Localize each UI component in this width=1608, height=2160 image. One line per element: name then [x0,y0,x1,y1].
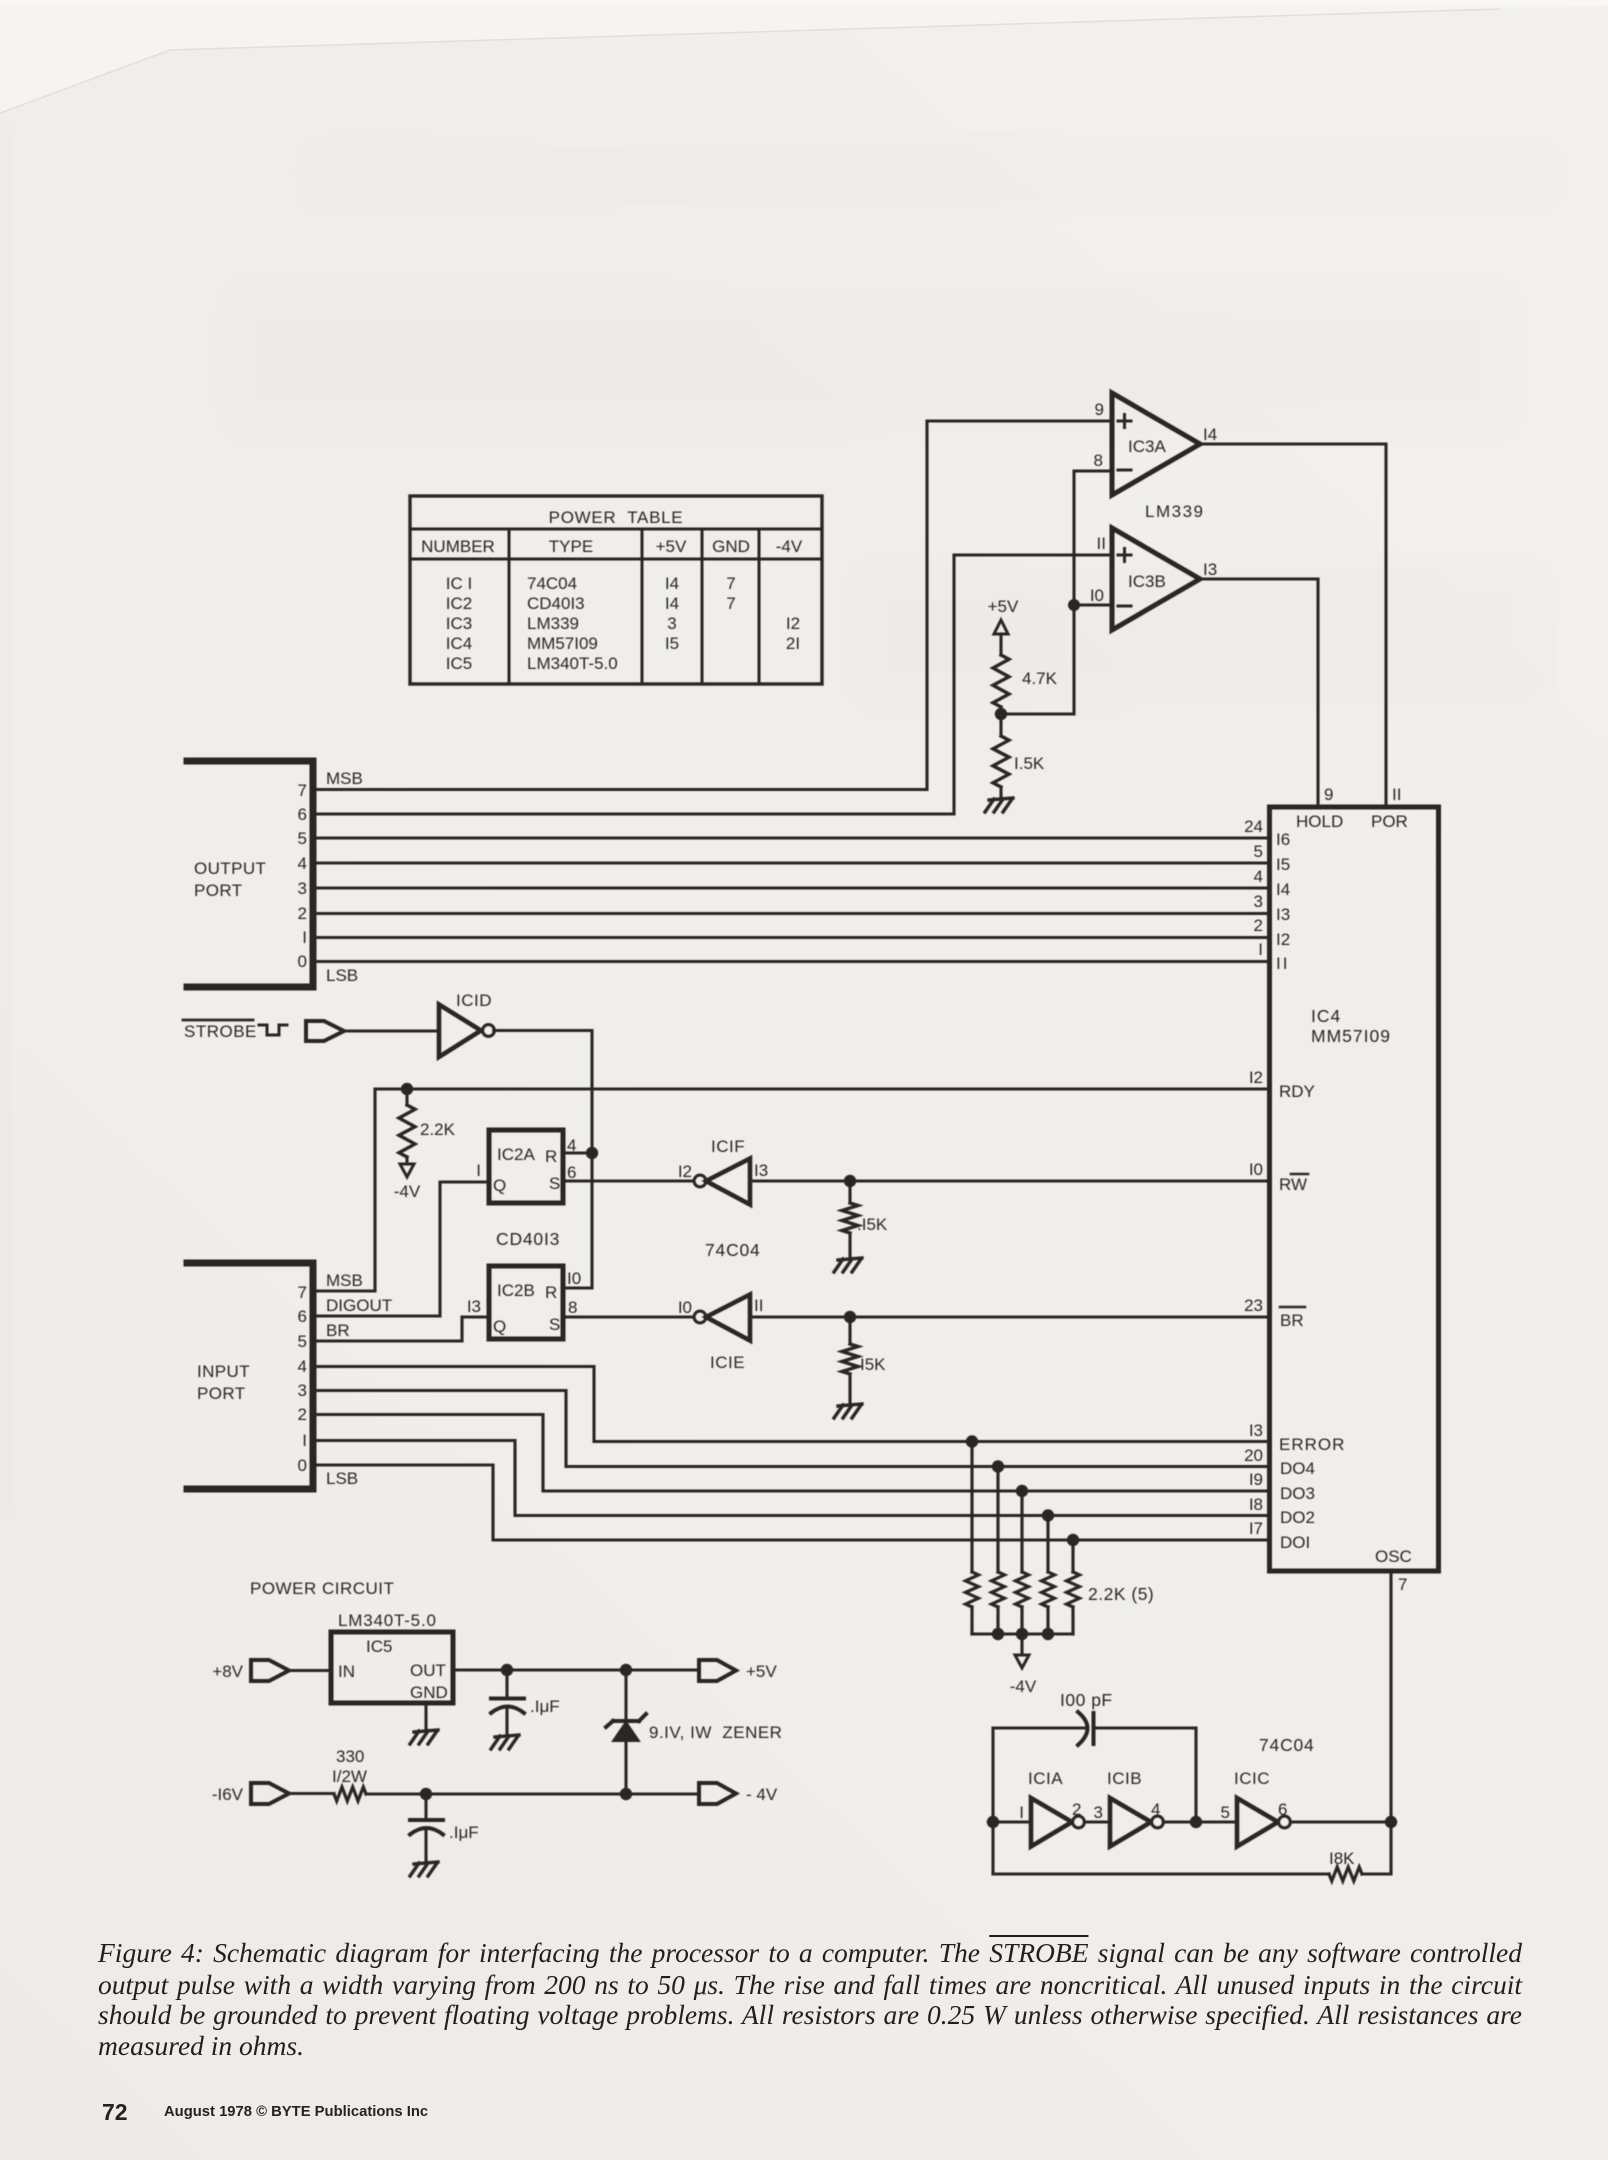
svg-text:5: 5 [1221,1803,1230,1822]
svg-text:7: 7 [726,574,735,593]
svg-text:.I5K: .I5K [857,1215,888,1234]
inverter IC1B [1094,1769,1164,1847]
svg-text:- 4V: - 4V [746,1785,778,1804]
svg-text:BR: BR [1280,1311,1304,1330]
power -4V below resistor bank [1010,1634,1037,1696]
svg-text:3: 3 [1254,892,1263,911]
svg-text:S: S [549,1315,560,1334]
svg-text:7: 7 [726,594,735,613]
resistor 330 1/2W [289,1747,367,1801]
wire: IC1D output to flip-flop reset chain [494,1031,593,1289]
wire: input port bit5 BR to IC2B Q pin 13 [313,1317,489,1341]
figure caption [98,1937,1522,1968]
resistor 2.2K bank #5 DO1 [1067,1540,1080,1634]
resistor 2.2K bank #3 DO3 [1016,1491,1029,1634]
svg-text:LM340T-5.0: LM340T-5.0 [338,1611,437,1630]
svg-text:5: 5 [1254,842,1263,861]
wire: input port bit0 to IC4 DO1 pin 17 [313,1465,1269,1540]
svg-text:2: 2 [1072,1800,1081,1819]
svg-text:5: 5 [298,1332,307,1351]
svg-text:I: I [1019,1803,1024,1822]
svg-text:DO3: DO3 [1280,1484,1315,1503]
junction: +5V rail cap tap [501,1664,513,1676]
svg-text:IC2: IC2 [446,594,472,613]
junction: RW / 15K tap [844,1175,856,1187]
svg-text:4: 4 [1151,1800,1160,1819]
svg-text:I2: I2 [786,614,800,633]
svg-text:24: 24 [1244,817,1263,836]
wire: IC3A minus pin 8 / IC3B minus pin 10 to divider node [1001,471,1112,714]
svg-text:9: 9 [1324,785,1333,804]
svg-text:4: 4 [298,1357,307,1376]
svg-text:LM339: LM339 [527,614,579,633]
junction: +5V rail zener tap [620,1664,632,1676]
svg-text:ICIE: ICIE [710,1353,745,1372]
svg-text:II: II [1276,954,1289,973]
svg-text:9.IV, IW ZENER: 9.IV, IW ZENER [649,1723,782,1742]
svg-text:.IμF: .IμF [530,1697,560,1716]
svg-text:LM340T-5.0: LM340T-5.0 [527,654,618,673]
svg-text:II: II [1392,785,1401,804]
flip-flop IC2A (CD4013) [476,1130,576,1203]
resistor 4.7K [993,655,1058,714]
svg-text:2.2K: 2.2K [420,1120,456,1139]
wire: output port bit5 to IC4 I6 [313,836,1269,839]
resistor 1.5K [993,714,1045,798]
svg-text:S: S [549,1174,560,1193]
svg-text:IC I: IC I [446,574,472,593]
svg-text:II: II [754,1296,763,1315]
wire: output port bit1 to IC4 I2 [313,936,1269,939]
svg-text:5: 5 [298,829,307,848]
input port [187,1263,392,1489]
svg-text:RDY: RDY [1279,1082,1315,1101]
connector -16V [212,1783,289,1804]
wire: IC1C output to OSC node [1290,1820,1391,1823]
svg-text:II: II [1097,534,1106,553]
wire: RDY net IC4 pin 12 to input port bit7 [313,1089,1269,1291]
svg-text:TYPE: TYPE [549,537,593,556]
svg-text:I5K: I5K [860,1355,886,1374]
junction: BR / 15K tap [844,1311,856,1323]
svg-text:-4V: -4V [776,537,803,556]
svg-text:PORT: PORT [194,881,243,900]
wire: 18K to left node [993,1872,1329,1875]
wire: input port bit2 to IC4 DO3 pin 19 [313,1415,1269,1492]
voltage regulator IC5 LM340T-5.0 [331,1632,453,1703]
svg-text:I0: I0 [567,1269,581,1288]
wire: feedback left vertical [991,1728,994,1874]
ground IC5 GND [410,1730,438,1744]
capacitor .1uF on -4V rail [410,1794,479,1862]
svg-text:I2: I2 [1249,1068,1263,1087]
svg-text:DO2: DO2 [1280,1508,1315,1527]
wire: input port bit1 to IC4 DO2 pin 18 [313,1441,1269,1516]
ground below 15K [834,1404,862,1418]
junction: DO3 pull-down tap [1016,1485,1028,1497]
junction: oscillator left node [987,1816,999,1828]
svg-text:74C04: 74C04 [1259,1735,1315,1755]
svg-text:MSB: MSB [326,769,363,788]
svg-text:330: 330 [336,1747,364,1766]
svg-text:LSB: LSB [326,966,358,985]
inverter IC1A [1019,1769,1084,1847]
svg-text:MM57I09: MM57I09 [1311,1026,1391,1046]
svg-text:R: R [545,1147,557,1166]
power -4V below 2.2K [394,1164,421,1201]
svg-text:+5V: +5V [988,597,1019,616]
svg-text:6: 6 [298,1307,307,1326]
svg-text:INPUT: INPUT [197,1362,250,1381]
svg-text:2: 2 [1254,916,1263,935]
svg-text:CD40I3: CD40I3 [527,594,585,613]
svg-text:POR: POR [1371,812,1408,831]
ground below +5V cap [491,1735,519,1749]
svg-text:PORT: PORT [197,1384,246,1403]
svg-text:7: 7 [1398,1575,1407,1594]
svg-text:OUTPUT: OUTPUT [194,859,266,878]
resistor 18K [1329,1849,1362,1881]
resistor 15K [842,1317,886,1404]
junction: OSC node [1385,1816,1397,1828]
svg-text:ICIF: ICIF [711,1137,745,1156]
svg-text:3: 3 [298,879,307,898]
svg-text:I3: I3 [1249,1421,1263,1440]
svg-text:.IμF: .IμF [449,1823,479,1842]
wire: IC5 OUT to +5V rail [453,1668,699,1671]
svg-text:RW: RW [1279,1175,1307,1194]
svg-text:I4: I4 [1276,880,1290,899]
svg-text:ICIA: ICIA [1028,1769,1063,1788]
flip-flop IC2B (CD4013) [467,1266,581,1339]
svg-text:CD40I3: CD40I3 [496,1229,560,1249]
svg-text:I6: I6 [1276,830,1290,849]
wire: IC1A output to IC1B input [1084,1820,1110,1823]
svg-text:MM57I09: MM57I09 [527,634,598,653]
svg-text:I5: I5 [1276,855,1290,874]
wire: feedback right drop to IC1B output [1194,1728,1197,1822]
svg-text:20: 20 [1244,1446,1263,1465]
svg-text:DO4: DO4 [1280,1459,1315,1478]
wire: STROBE connector to IC1D input [344,1029,439,1032]
wire: output port bit3 to IC4 I4 [313,886,1269,889]
svg-text:I8: I8 [1249,1495,1263,1514]
wire: IC2A S pin 6 to IC1F input pin 12 [563,1179,695,1182]
junction: 4.7K / 1.5K divider node [995,708,1007,720]
connector +5V [699,1660,777,1681]
svg-text:0: 0 [298,1456,307,1475]
capacitor 100pF feedback [993,1712,1196,1745]
svg-text:2: 2 [298,904,307,923]
svg-text:IC5: IC5 [366,1637,392,1656]
inverter IC1D [439,991,494,1057]
resistor 2.2K bank #2 DO4 [992,1467,1005,1635]
svg-text:3: 3 [667,614,676,633]
svg-text:74C04: 74C04 [527,574,577,593]
svg-text:DOI: DOI [1280,1533,1310,1552]
svg-text:7: 7 [298,1283,307,1302]
svg-text:4: 4 [298,854,307,873]
resistor 2.2K [399,1089,456,1164]
connector -4V [699,1783,778,1804]
wire: -4V rail [366,1792,699,1795]
wire: IC5 GND pin [424,1703,427,1730]
svg-text:I0: I0 [1249,1160,1263,1179]
svg-text:IC4: IC4 [446,634,472,653]
svg-text:I: I [476,1161,481,1180]
junction: DO1 pull-down tap [1067,1534,1079,1546]
svg-text:I2: I2 [678,1162,692,1181]
wire: IC1B output to IC1C input [1163,1820,1237,1823]
wire: +8V to IC5 IN [289,1669,331,1672]
svg-text:8: 8 [568,1298,577,1317]
svg-text:I2: I2 [1276,930,1290,949]
svg-text:IC3B: IC3B [1128,572,1166,591]
svg-text:I00 pF: I00 pF [1060,1690,1113,1710]
svg-text:+5V: +5V [656,537,687,556]
svg-text:I9: I9 [1249,1470,1263,1489]
svg-text:I.5K: I.5K [1014,754,1045,773]
svg-text:NUMBER: NUMBER [421,537,495,556]
svg-text:MSB: MSB [326,1271,363,1290]
op-amp comparator IC3B [1090,528,1217,630]
svg-text:I: I [302,1431,307,1450]
svg-text:3: 3 [1094,1803,1103,1822]
svg-text:-4V: -4V [394,1182,421,1201]
connector +8V [212,1660,289,1681]
svg-text:ICID: ICID [456,991,492,1010]
ground below .15K [834,1258,862,1272]
wire: input port bit3 to IC4 DO4 pin 20 [313,1391,1269,1467]
svg-text:2I: 2I [786,634,800,653]
svg-text:I4: I4 [1203,425,1217,444]
junction: DO2 pull-down tap [1042,1509,1054,1521]
svg-text:R: R [545,1283,557,1302]
resistor 2.2K bank #4 DO2 [1042,1516,1055,1635]
wire: IC2A R pin 4 to reset node [563,1151,592,1154]
svg-text:Q: Q [493,1176,506,1195]
svg-text:9: 9 [1095,400,1104,419]
svg-text:IC2A: IC2A [497,1145,535,1164]
inverter IC1C [1221,1769,1291,1847]
wire: IC4 OSC pin 7 to oscillator [1389,1571,1392,1822]
svg-text:BR: BR [326,1321,350,1340]
svg-text:LSB: LSB [326,1469,358,1488]
svg-text:IC5: IC5 [446,654,472,673]
svg-text:I3: I3 [467,1297,481,1316]
svg-text:4.7K: 4.7K [1022,669,1058,688]
svg-text:HOLD: HOLD [1296,812,1343,831]
junction: feedback tap at IC1B output [1190,1816,1202,1828]
wire: output port bit0 to IC4 I1 [313,960,1269,963]
ground below 1.5K [985,798,1013,812]
svg-text:2.2K (5): 2.2K (5) [1088,1584,1154,1604]
svg-text:7: 7 [298,781,307,800]
svg-text:I8K: I8K [1329,1849,1355,1868]
resistor 2.2K bank #1 ERROR [966,1442,979,1635]
output port [187,761,363,987]
wire: IC1F output to IC4 RW pin 10 [750,1179,1269,1182]
capacitor .1uF on +5V rail [491,1670,560,1735]
svg-text:6: 6 [1278,1800,1287,1819]
svg-text:I3: I3 [1203,560,1217,579]
zener diode 9.1V 1W [606,1670,782,1794]
wire: input port bit4 to IC4 ERROR pin 13 [313,1367,1269,1442]
svg-text:+8V: +8V [212,1662,243,1681]
power +5V [988,597,1019,655]
junction: -4V rail zener tap [620,1788,632,1800]
svg-text:ICIB: ICIB [1107,1769,1142,1788]
wire: IC2B R pin 10 to reset chain vertical [563,1286,592,1289]
junction: RDY / 2.2K tap [401,1083,413,1095]
svg-text:ERROR: ERROR [1279,1435,1345,1454]
junction: DO4 pull-down tap [992,1460,1004,1472]
svg-text:OSC: OSC [1375,1547,1412,1566]
svg-text:2: 2 [298,1405,307,1424]
wire: output port bit4 to IC4 I5 [313,861,1269,864]
svg-text:+5V: +5V [746,1662,777,1681]
svg-text:POWER CIRCUIT: POWER CIRCUIT [250,1579,394,1598]
svg-text:IN: IN [338,1662,355,1681]
wire: input port bit6 DIGOUT to IC2A Q pin 1 [313,1182,489,1316]
svg-text:IC3A: IC3A [1128,437,1166,456]
svg-text:POWER TABLE: POWER TABLE [549,508,684,527]
svg-text:4: 4 [1254,867,1263,886]
svg-text:I0: I0 [678,1298,692,1317]
svg-text:I7: I7 [1249,1519,1263,1538]
svg-text:STROBE: STROBE [184,1022,257,1041]
wire: IC1E output to IC4 BR pin 23 [750,1315,1269,1318]
inverter IC1F [678,1137,768,1205]
page footer [102,2099,128,2126]
ground below -4V cap [410,1862,438,1876]
wire: OSC node down to 18K feedback [1362,1822,1391,1874]
svg-text:GND: GND [410,1683,448,1702]
svg-text:IC3: IC3 [446,614,472,633]
svg-text:I3: I3 [1276,905,1290,924]
svg-text:DIGOUT: DIGOUT [326,1296,392,1315]
wire: IC3B output pin 13 to IC4 HOLD pin 9 [1200,579,1318,807]
op-amp comparator IC3A [1094,393,1218,495]
power table [410,496,822,684]
svg-text:OUT: OUT [410,1661,446,1680]
svg-text:I5: I5 [665,634,679,653]
svg-text:3: 3 [298,1381,307,1400]
svg-text:I0: I0 [1090,586,1104,605]
svg-text:-I6V: -I6V [212,1785,244,1804]
resistor .15K [842,1181,888,1258]
svg-text:GND: GND [712,537,750,556]
wire: IC2B S pin 8 to IC1E [563,1315,695,1318]
junction: ERROR pull-down tap [966,1435,978,1447]
svg-text:I4: I4 [665,574,679,593]
junction: reset node at IC2A pin 4 [586,1147,598,1159]
wire: left node to IC1A input [993,1820,1031,1823]
node STROBE input [183,1020,344,1041]
svg-text:6: 6 [298,805,307,824]
svg-text:IC2B: IC2B [497,1281,535,1300]
svg-text:8: 8 [1094,451,1103,470]
junction: -4V rail cap tap [420,1788,432,1800]
svg-text:I3: I3 [754,1161,768,1180]
svg-text:I: I [302,928,307,947]
wire: output port bit7 MSB to IC3A + input pin 9 [313,421,1112,790]
svg-text:IC4: IC4 [1311,1006,1341,1026]
wire: output port bit2 to IC4 I3 [313,912,1269,915]
svg-text:23: 23 [1244,1296,1263,1315]
wire: IC3A output pin 14 to IC4 POR pin 11 [1200,444,1386,807]
junction: bank bus dots [992,1628,1004,1640]
svg-text:ICIC: ICIC [1234,1769,1270,1788]
junction: IC3B minus tap [1068,599,1080,611]
svg-text:0: 0 [298,952,307,971]
svg-text:I/2W: I/2W [332,1767,367,1786]
svg-text:LM339: LM339 [1145,502,1204,521]
svg-text:I: I [1258,940,1263,959]
inverter IC1E [678,1295,764,1373]
wire: output port bit6 to IC3B + input pin 11 [313,555,1112,814]
IC4 MM57109 [1244,785,1438,1594]
svg-text:74C04: 74C04 [705,1240,761,1260]
svg-text:-4V: -4V [1010,1677,1037,1696]
svg-text:6: 6 [567,1163,576,1182]
svg-text:I4: I4 [665,594,679,613]
wire: resistor bank common bus [972,1632,1073,1635]
svg-text:Q: Q [493,1317,506,1336]
